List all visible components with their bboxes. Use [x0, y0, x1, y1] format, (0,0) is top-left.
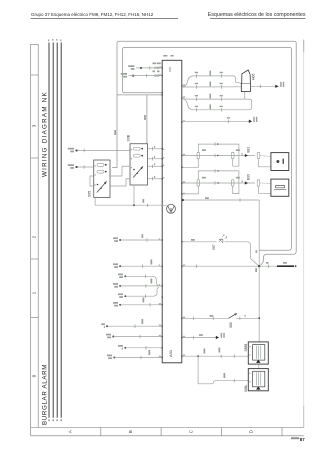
S9B right pin wire 2 [148, 158, 163, 160]
svg-text:B81: B81 [247, 146, 251, 152]
wire splice D06-2 to A31 [129, 75, 163, 77]
frame: bottom strip tick D/end [281, 428, 283, 436]
svg-text:B: B [128, 430, 133, 433]
bridge over B81 row [198, 144, 239, 166]
input row 286 wire [120, 285, 162, 287]
cable bus wire 2 [52, 43, 54, 418]
wire pill to key box [259, 187, 271, 194]
frame: bottom strip tick B/C [160, 428, 162, 436]
wire A31 to horn bottom row [182, 98, 245, 100]
arrow B81 [245, 154, 248, 157]
tick row 326 [134, 324, 136, 328]
input row 348 wire [125, 347, 162, 349]
bus splice up label [68, 148, 74, 150]
switch S80 lever [229, 314, 237, 319]
frame: bottom strip top line [31, 427, 304, 429]
dot on B90 row [217, 182, 218, 183]
horn bottom pin vertical [244, 92, 246, 100]
bus splice square up [76, 150, 78, 152]
ground wire row under switches [95, 198, 167, 206]
svg-text:2: 2 [32, 235, 37, 238]
control unit A31 box [162, 60, 182, 363]
frame: left margin top cap [31, 43, 39, 45]
key reader box B90 [271, 179, 289, 196]
lamp dot symbol [276, 160, 279, 163]
svg-text:C: C [189, 430, 194, 433]
pill on B81 row right [231, 152, 234, 159]
indicator lamp box B81 [271, 153, 289, 171]
label on row 240 wire [142, 234, 144, 238]
input row at 304.8: label [113, 302, 118, 304]
svg-text:S95: S95 [88, 191, 92, 197]
frame: left margin tick 4 [31, 317, 39, 319]
tick row 305 [149, 303, 151, 307]
dot on B81 row [217, 155, 218, 156]
L-wire pin to pill bottom B90 [182, 186, 199, 194]
wire: inner supply loop [123, 48, 292, 251]
input row 276 dot [124, 275, 126, 277]
frame: bottom strip tick A/B [100, 428, 102, 436]
LED V67 diode [219, 239, 223, 243]
svg-text:V67: V67 [212, 244, 216, 250]
input row 240 wire [120, 239, 162, 241]
input row 296 dot [124, 295, 126, 297]
S95 to S9B link wire 2 [110, 179, 130, 186]
input row 240 dot [119, 239, 121, 241]
cable bus wire 3 [56, 43, 58, 418]
branch wire to S88L [198, 356, 248, 384]
bus bottom labels [48, 419, 62, 421]
tick on up wire [83, 149, 85, 153]
S88B barrel lines [257, 346, 261, 359]
S88B diode triangle [256, 360, 260, 363]
input row 357 dot [113, 356, 115, 358]
svg-text:Esquemas eléctricos de los com: Esquemas eléctricos de los componentes [208, 12, 306, 18]
pin labels S9B right side [154, 146, 155, 178]
label on row 266 wire [151, 260, 153, 265]
cable bus wire 1 [48, 43, 50, 418]
L-wire pin to pill bottom B81 [182, 159, 199, 168]
input row 296 wire merging up [125, 287, 159, 296]
svg-text:A: A [68, 430, 73, 433]
wire gauge labels top-right fan [143, 149, 258, 336]
wire junction down to S88B [258, 266, 260, 342]
svg-text:S88B: S88B [244, 344, 248, 352]
wire A31 lower fan to horn bottom (s-curve) [182, 99, 252, 110]
labels above ground bar [266, 262, 269, 264]
label on row 326 wire [142, 319, 144, 324]
labels above circles row1 [153, 63, 157, 65]
tick on bridge 2 [214, 169, 216, 173]
vertical pill before key box [257, 180, 260, 187]
A31 left edge pin marks [162, 67, 163, 358]
arrow 6F/42 labels [253, 117, 254, 122]
arrow labels [280, 82, 281, 87]
S9B right pin wire 1 [148, 148, 163, 150]
bus splice low label [68, 164, 74, 166]
ticks on S80 wire [193, 317, 195, 321]
input row 286 dot [119, 285, 121, 287]
label on row 286 wire [151, 279, 153, 284]
label on tap wire [144, 115, 146, 120]
S9B switch dots [133, 169, 135, 171]
connector circles row2 [155, 75, 157, 77]
bus splice square low [76, 166, 78, 168]
svg-text:3: 3 [32, 124, 37, 127]
input row at 336.5: label [106, 334, 111, 336]
ticks on junction-A31 wire [195, 264, 197, 268]
ticks and label dashes on fan rows [195, 71, 223, 112]
lock switch S88B box [248, 342, 268, 364]
label below junction [255, 268, 257, 272]
S9B pin numbers [131, 149, 132, 150]
svg-text:87: 87 [300, 437, 305, 442]
tick row 348 [145, 346, 147, 350]
siren fork symbol [168, 206, 174, 212]
header right underline [210, 17, 306, 19]
input row at 326.2: label [101, 323, 105, 325]
S88L wire label [224, 373, 226, 378]
tick on horn output [259, 85, 261, 89]
dashed pin wire into lamp box [260, 156, 271, 157]
splice D06-1 label [128, 65, 134, 67]
input row at 276.3: label [118, 274, 123, 276]
svg-text:1: 1 [32, 291, 37, 294]
junction dot at S80 row [258, 317, 260, 319]
lamp bar symbol [283, 159, 285, 164]
S95 switch lever [97, 182, 106, 193]
wire A31 to off-page arrow 1/4 [182, 337, 216, 339]
tick on bridge 1 [214, 142, 216, 146]
ground square on A31 edge [182, 199, 184, 201]
wire: loop branch to A31 at 94.9 [117, 94, 162, 96]
ticks on S9B right wires [152, 147, 154, 151]
link S88B to S88L [258, 364, 260, 369]
S9B right pin wire 4 [148, 178, 163, 180]
S9B contact dot 1 [141, 148, 143, 150]
S95 contact pill 1 [97, 163, 104, 166]
S95 contact pill 2 [97, 170, 104, 173]
siren motor circle inside A31 [167, 204, 176, 213]
wire A31 to S88B left pin [182, 355, 249, 357]
S88B inner body [253, 345, 265, 361]
input row 336 wire [113, 336, 162, 338]
input row 276 wire merging down [125, 276, 160, 286]
label dash on 121 wire [227, 117, 230, 118]
S88B pin numbers [249, 346, 250, 347]
tick on S88L wire [233, 379, 235, 383]
svg-text:H06: H06 [252, 74, 256, 80]
horn H06 body [241, 84, 250, 92]
arrow 1/4 labels [221, 333, 222, 338]
wire switch to junction vertical [236, 317, 259, 319]
splice D06-2 [132, 75, 134, 77]
tick after switch [239, 317, 241, 321]
input row 348 dot [124, 347, 126, 349]
tick on 121 wire [228, 120, 230, 124]
tick on low wire [83, 165, 85, 169]
pill on B90 row right [231, 180, 234, 187]
tick row 357 [140, 356, 142, 360]
svg-text:WIRING DIAGRAM NK: WIRING DIAGRAM NK [42, 91, 49, 177]
input row 305 wire [120, 304, 162, 306]
frame: bottom strip bottom line [31, 435, 304, 437]
wire A31 to off-page arrow 6F/42 [182, 120, 249, 122]
off-page arrow right of horn [275, 85, 278, 88]
tick row 240 [146, 238, 148, 242]
label on row 357 wire [149, 350, 151, 355]
frame: left margin tick 3 [31, 258, 39, 260]
tick on 1/4 wire [193, 336, 195, 340]
tick row 266 [142, 264, 144, 268]
A31 right edge pin marks [181, 85, 182, 357]
tick on 200 wire [239, 198, 241, 202]
splice D06-1 [140, 67, 142, 69]
S9B bottom drop wire [133, 185, 135, 205]
input row at 266: label [113, 263, 118, 265]
junction dot S9B ground [133, 204, 135, 206]
S95 switch dots [97, 184, 99, 186]
page number [291, 437, 299, 439]
S88L barrel lines [257, 372, 261, 385]
labels above circles row2 [153, 71, 156, 73]
branch T dot [197, 355, 199, 357]
key symbol base [274, 189, 286, 191]
arrow B90 [245, 181, 248, 184]
svg-text:S80: S80 [229, 322, 233, 328]
input row at 296.2: label [118, 293, 123, 295]
frame: right border [303, 52, 305, 428]
wire labels rotated [219, 348, 221, 353]
dashed pin wire into key box [260, 182, 271, 185]
tick on B90 row mid [214, 181, 216, 185]
wire pill to lamp box [259, 159, 271, 167]
input row 266 dot [119, 265, 121, 267]
frame: left margin tick 2 [31, 157, 39, 159]
input row 266 wire [120, 265, 162, 267]
tick on ground row [146, 203, 148, 207]
wire splice D06-1 to A31 [136, 67, 162, 69]
splice D06-2 label [121, 73, 127, 75]
wire LED to junction [225, 242, 259, 266]
key symbol lens [275, 185, 285, 187]
bridge over B90 row [198, 171, 239, 194]
A31 right edge pin ticks [183, 84, 185, 356]
tick on ground bar wire [268, 264, 270, 268]
input row 326 dot [106, 325, 108, 327]
S9B contact pill 2 [133, 154, 140, 157]
S95 contact dot 2 [105, 171, 107, 173]
wire A31 to switch S80 [182, 317, 229, 319]
door switch S9B box [130, 144, 148, 185]
tick row 286 [145, 284, 147, 288]
wire junction to ground bar [260, 265, 277, 267]
input row at 285.9: label [113, 283, 118, 285]
wire A31 to LED V67 [182, 241, 217, 243]
S95 contact dot 1 [105, 164, 107, 166]
wire: tap from loop to S9B top pin [146, 95, 148, 144]
junction node dot [258, 265, 260, 267]
svg-text:BURGLAR ALARM: BURGLAR ALARM [42, 364, 49, 425]
tick row 296 [145, 294, 147, 298]
wire junction to A31 [182, 265, 258, 267]
tick row 276 [145, 275, 147, 279]
S9B contact pill 1 [133, 147, 140, 150]
door switch S95 box [94, 160, 110, 198]
S9B contact dot 2 [141, 155, 143, 157]
input row W3-7 at 240: label [113, 237, 118, 239]
tick on D06-1 wire [149, 66, 151, 70]
tick on B81 row mid [214, 154, 216, 158]
bus splice to S95 wire [77, 166, 93, 168]
off-page arrow 1/4 [216, 336, 219, 339]
svg-text:0: 0 [32, 374, 37, 377]
ticks on S88B wire [220, 354, 222, 358]
cable bus wire 4 [60, 43, 62, 418]
relay row B90: wire A31 to key box [182, 182, 255, 184]
svg-text:Grupo 37 Esquema eléctrico FM9: Grupo 37 Esquema eléctrico FM9, FM12, FH… [31, 12, 154, 17]
label on row 305 wire [143, 298, 145, 303]
ground stub wire at 200 [184, 200, 259, 265]
dot on bridge 1 [217, 143, 218, 144]
horn H06 cone [242, 70, 251, 84]
relay row B81: wire A31 to lamp box [182, 155, 255, 157]
lock switch S88L box [248, 369, 268, 391]
ground bar end dot [295, 265, 297, 267]
frame: left margin outer line [30, 44, 32, 436]
input row 357 wire [114, 356, 162, 358]
svg-text:A31: A31 [168, 349, 173, 357]
S95 to S9B link wire 1 [110, 166, 130, 176]
svg-text:S9B: S9B [126, 134, 130, 141]
vertical pill before lamp [257, 152, 260, 159]
input row 305 dot [119, 304, 121, 306]
input row at 357.4: label [107, 355, 112, 357]
S9B right pin wire 3 [148, 165, 163, 167]
dot on bridge 2 [217, 170, 218, 171]
svg-text:D: D [249, 430, 254, 433]
input row at 347.8: label [118, 345, 123, 347]
input row 336 dot [112, 336, 114, 338]
wire A31 to horn top (fan up) [182, 76, 242, 87]
A31 left edge pin ticks [159, 66, 164, 357]
wire: outer supply loop (left vertical, top run, right vertical) [112, 41, 296, 265]
wire A31 to horn left pin [182, 86, 242, 88]
svg-text:S88L: S88L [244, 384, 248, 392]
off-page arrow 6F/42 [249, 120, 252, 123]
frame: right border top mark [303, 40, 305, 52]
labels above A31 top edge [163, 55, 167, 57]
bus splice to S9B wire (row up) [77, 150, 130, 152]
A31 internal top label [169, 67, 170, 72]
wire horn output to off-page arrow [250, 85, 275, 87]
input row 326 wire [107, 325, 162, 327]
bus top labels [48, 39, 61, 41]
label on outer loop vertical [114, 130, 116, 135]
header left underline [31, 17, 179, 19]
connector circles row1 [155, 67, 157, 69]
svg-text:B90: B90 [247, 174, 251, 180]
frame: left margin inner line [37, 44, 39, 427]
tick row 336 [139, 335, 141, 339]
frame: right border bottom segment [303, 406, 305, 428]
frame: bottom strip tick C/D [220, 428, 222, 436]
pill on B81 row left [197, 152, 200, 159]
LED V67 arrows [222, 235, 227, 239]
tick on D06-2 wire [146, 74, 148, 78]
S88L diode triangle [256, 386, 260, 389]
ground bold bar [277, 265, 294, 267]
S95 pin ticks [95, 165, 96, 166]
S88L inner body [253, 371, 265, 387]
S9B switch lever [133, 167, 142, 178]
frame: left margin tick 1 [31, 74, 39, 76]
S95 left loopback wire [90, 176, 94, 186]
pill on B90 row left [197, 180, 200, 187]
S88L pin numbers [249, 373, 250, 374]
